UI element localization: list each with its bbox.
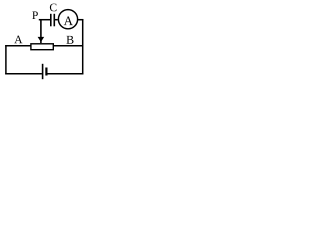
wire: right vertical <box>82 19 84 74</box>
wire: bottom right segment (battery to right corner) <box>47 73 83 75</box>
wiper arrowhead <box>38 37 45 42</box>
capacitor C right plate <box>53 14 55 26</box>
battery short thick plate <box>45 68 47 76</box>
battery long plate <box>42 64 44 79</box>
label B (terminal) <box>66 36 73 44</box>
capacitor C left plate <box>50 14 52 26</box>
wire: left horizontal to rheostat (terminal A side) <box>5 45 30 47</box>
wire: ammeter to top-right corner <box>78 19 84 21</box>
label P <box>32 11 38 19</box>
label A (terminal) <box>14 36 22 44</box>
ammeter letter A <box>64 17 73 26</box>
wire: capacitor to ammeter <box>55 19 58 21</box>
wire: bottom left segment (left corner to battery) <box>5 73 42 75</box>
wire: rheostat to right vertical (terminal B side) <box>54 45 83 47</box>
wire: top wire left stub from P junction to capacitor <box>39 19 51 21</box>
background <box>0 0 90 80</box>
ammeter U1 circle <box>58 10 77 29</box>
rheostat R body <box>31 44 53 50</box>
label C <box>50 4 57 12</box>
wire: left vertical <box>5 45 7 74</box>
wire: wiper vertical from P junction <box>40 19 42 43</box>
